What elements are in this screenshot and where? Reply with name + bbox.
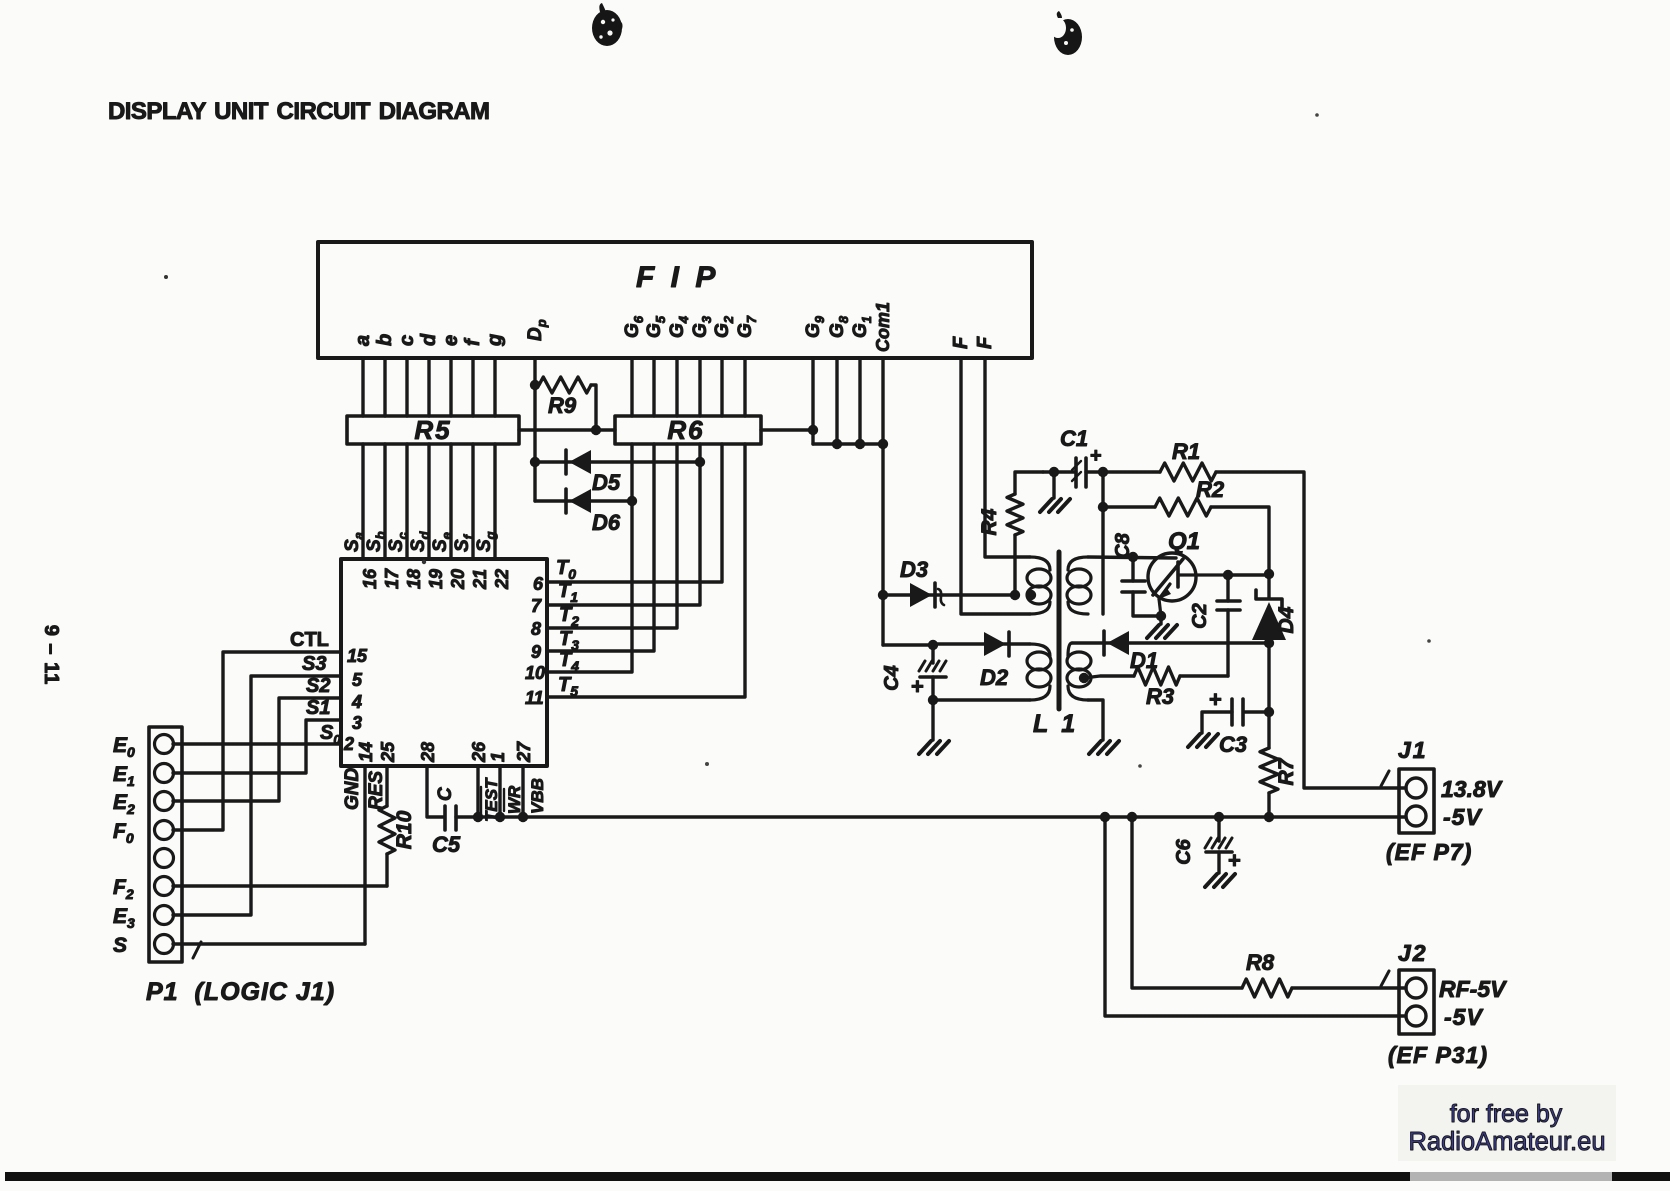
svg-text:C3: C3	[1219, 732, 1247, 757]
wire Q1 collector node	[1223, 570, 1233, 580]
L1 primary winding top-left	[1030, 557, 1050, 570]
svg-text:C6: C6	[1173, 838, 1195, 864]
svg-text:16: 16	[360, 568, 380, 589]
wire E3 to S3 pin5	[173, 676, 341, 915]
svg-text:6: 6	[533, 574, 544, 594]
svg-text:GND: GND	[342, 768, 363, 811]
svg-text:2: 2	[343, 734, 354, 754]
svg-text:1: 1	[488, 752, 508, 762]
svg-text:S1: S1	[306, 697, 330, 719]
svg-text:R2: R2	[1196, 477, 1225, 502]
svg-text:a: a	[352, 335, 374, 346]
svg-text:CTL: CTL	[290, 629, 329, 651]
svg-text:4: 4	[351, 692, 362, 712]
svg-text:22: 22	[492, 569, 512, 590]
FIP pin Com1 wire / net Com1	[881, 358, 884, 645]
capacitor C1	[1074, 458, 1078, 487]
svg-text:D3: D3	[900, 557, 928, 582]
scan blob artifact left	[592, 3, 623, 46]
svg-text:9: 9	[531, 642, 541, 662]
wire F2 to R10	[173, 884, 387, 887]
svg-text:(EF P7): (EF P7)	[1386, 839, 1472, 865]
svg-text:-5V: -5V	[1443, 804, 1482, 830]
connector P1	[149, 727, 182, 962]
resistor R9	[539, 377, 591, 393]
svg-text:R7: R7	[1275, 757, 1298, 785]
svg-text:R5: R5	[414, 415, 451, 445]
svg-text:RF-5V: RF-5V	[1439, 976, 1507, 1002]
svg-text:S3: S3	[302, 653, 326, 675]
P1 contact circle 8	[155, 935, 174, 954]
FIP pin F wire (1)	[961, 358, 1030, 614]
svg-text:F I P: F I P	[636, 261, 719, 294]
L1 winding tap (top-left)	[1010, 590, 1020, 600]
svg-text:20: 20	[448, 569, 468, 590]
wire IC pin1 down	[498, 766, 501, 817]
resistor R7	[1267, 712, 1270, 748]
svg-text:VBB: VBB	[528, 778, 547, 814]
wire bus to R8	[1127, 812, 1137, 822]
wire C1 left / ground stub	[1043, 470, 1076, 473]
svg-text:RadioAmateur.eu: RadioAmateur.eu	[1408, 1128, 1605, 1156]
wire E2 to S2 pin4	[173, 698, 341, 801]
diode D5	[535, 460, 700, 463]
wire bus to J2 pin2	[1100, 812, 1110, 822]
wire G3 to IC pin T1	[547, 444, 700, 605]
transformer L1 core	[1057, 552, 1062, 709]
ground at L1	[1089, 741, 1101, 754]
wire IC pin14 GND down	[363, 766, 366, 944]
ground at C6	[1205, 874, 1217, 887]
diode D1	[1072, 641, 1269, 644]
svg-text:c: c	[396, 335, 418, 346]
(noise)	[164, 275, 168, 279]
svg-text:S: S	[113, 934, 127, 957]
svg-text:d: d	[418, 333, 440, 346]
J1 contact 1	[1406, 778, 1426, 798]
FIP pin b wire	[383, 358, 386, 416]
svg-text:Com1: Com1	[873, 302, 893, 352]
svg-text:9 – 11: 9 – 11	[40, 625, 62, 686]
svg-text:D5: D5	[592, 470, 621, 495]
connector J2	[1399, 970, 1434, 1034]
FIP pin G8 wire	[835, 358, 838, 444]
capacitor C8	[1131, 557, 1134, 581]
Q1 emitter to ground	[1156, 611, 1166, 621]
wire Sd R5 to IC	[427, 444, 430, 559]
svg-text:27: 27	[514, 741, 534, 763]
wire Sg R5 to IC	[493, 444, 496, 559]
transistor Q1	[1148, 553, 1196, 601]
FIP pin Dp wire	[533, 358, 536, 501]
P1 contact circle 7	[155, 906, 174, 925]
svg-text:18: 18	[404, 569, 424, 589]
wire winding to R1/R2 junction	[1101, 472, 1104, 614]
svg-text:F: F	[974, 336, 996, 349]
wire Sc R5 to IC	[405, 444, 408, 559]
svg-text:R9: R9	[548, 393, 577, 418]
L1 winding bottom-left	[1030, 644, 1050, 656]
svg-text:DISPLAY UNIT CIRCUIT DIAGRAM: DISPLAY UNIT CIRCUIT DIAGRAM	[108, 98, 489, 125]
wire R5 to R6	[519, 428, 615, 431]
P1 contact circle 3	[155, 792, 174, 811]
svg-text:C1: C1	[1060, 426, 1088, 451]
svg-text:-5V: -5V	[1444, 1004, 1483, 1030]
svg-text:15: 15	[347, 646, 368, 666]
FIP pin G7 wire	[743, 358, 746, 416]
P1 contact circle 4	[155, 821, 174, 840]
capacitor C3	[1264, 707, 1274, 717]
J1 contact 2	[1406, 806, 1426, 826]
FIP pin g wire	[493, 358, 496, 416]
svg-text:+: +	[1209, 687, 1222, 712]
svg-text:RES: RES	[366, 771, 387, 810]
zener diode D4	[1267, 574, 1270, 598]
wire R6 to G9	[761, 428, 813, 431]
FIP pin G5 wire	[652, 358, 655, 416]
svg-text:C: C	[435, 787, 456, 801]
svg-text:21: 21	[470, 569, 490, 590]
svg-text:J2: J2	[1398, 940, 1428, 966]
svg-text:b: b	[374, 334, 396, 346]
resistor R1	[1098, 467, 1108, 477]
ground at Q1 emitter	[1147, 625, 1159, 638]
svg-text:R10: R10	[393, 810, 416, 849]
wire bottom-right winding to ground	[1088, 700, 1103, 740]
svg-text:P1 (LOGIC J1): P1 (LOGIC J1)	[146, 978, 335, 1006]
wire Sb R5 to IC	[383, 444, 386, 559]
L1 winding bottom-right	[1068, 643, 1072, 656]
svg-text:C8: C8	[1112, 532, 1134, 558]
svg-text:F: F	[950, 336, 972, 349]
wire C4 node to ground	[931, 700, 934, 740]
svg-text:3: 3	[352, 713, 362, 733]
capacitor C6	[1214, 812, 1224, 822]
FIP pin f wire	[471, 358, 474, 416]
bottom -5V bus wire	[456, 815, 1406, 818]
svg-text:C2: C2	[1189, 603, 1211, 629]
J2 contact 2	[1406, 1006, 1426, 1026]
svg-text:D4: D4	[1275, 606, 1298, 633]
resistor network R5	[347, 416, 519, 444]
resistor network R6	[615, 416, 761, 444]
FIP pin d wire	[427, 358, 430, 416]
resistor R8	[1242, 979, 1292, 997]
wire IC pin26 down	[476, 766, 479, 817]
J1 pin1 tick	[1381, 771, 1389, 786]
svg-text:7: 7	[531, 596, 542, 616]
svg-text:R1: R1	[1172, 439, 1200, 464]
capacitor C2	[1226, 575, 1229, 601]
wire Com1 to D2 node	[883, 643, 933, 646]
wire F0 to CTL pin15	[173, 652, 341, 830]
FIP pin G3 wire	[698, 358, 701, 416]
svg-text:19: 19	[426, 569, 446, 589]
resistor R4	[1013, 535, 1016, 595]
svg-text:R4: R4	[978, 508, 1001, 535]
svg-text:e: e	[440, 335, 462, 346]
IC driver U1	[341, 559, 547, 766]
J2 pin1 tick	[1381, 971, 1389, 986]
FIP pin G6 wire	[630, 358, 633, 416]
ground at C1	[1040, 499, 1052, 512]
capacitor C5	[443, 806, 447, 830]
svg-text:C5: C5	[432, 832, 461, 857]
capacitor C4	[931, 645, 934, 663]
diode D3	[883, 593, 1015, 596]
svg-text:+: +	[1090, 445, 1102, 467]
wire E0 to S0 pin2	[173, 742, 341, 745]
svg-text:28: 28	[418, 742, 438, 763]
node bus G9-G8-G1-Com1	[813, 442, 883, 445]
svg-text:(EF P31): (EF P31)	[1388, 1042, 1488, 1068]
FIP pin a wire	[361, 358, 364, 416]
wire G7 to IC pin T5	[547, 444, 745, 697]
svg-text:R6: R6	[667, 415, 704, 445]
wire winding to Q1 base / C8	[1088, 557, 1176, 558]
wire Sf R5 to IC	[471, 444, 474, 559]
wire Se R5 to IC	[449, 444, 452, 559]
svg-text:D2: D2	[980, 665, 1009, 690]
svg-text:+: +	[911, 674, 924, 699]
diode D6	[535, 499, 632, 502]
svg-text:8: 8	[531, 619, 541, 639]
P1 contact circle 6	[155, 877, 174, 896]
svg-text:5: 5	[352, 670, 363, 690]
svg-text:R3: R3	[1146, 684, 1174, 709]
svg-text:S2: S2	[306, 675, 330, 697]
P1 contact circle 1	[155, 735, 174, 754]
wire IC pin28 to C5	[427, 766, 443, 817]
svg-text:for free by: for free by	[1450, 1100, 1563, 1128]
svg-text:14: 14	[356, 742, 376, 762]
wire G2 to IC pin T0	[547, 444, 722, 582]
wire G6 to IC pin T4	[547, 444, 632, 672]
svg-text:25: 25	[378, 741, 398, 763]
diode D2	[933, 642, 1030, 645]
wire IC pin27 down	[521, 766, 524, 817]
P1 contact circle 5	[155, 849, 174, 868]
FIP pin G9 wire	[811, 358, 814, 444]
svg-text:11: 11	[525, 688, 544, 708]
svg-text:10: 10	[525, 663, 545, 683]
P1 contact circle 2	[155, 764, 174, 783]
connector J1	[1399, 769, 1434, 833]
wire G5 to IC pin T3	[547, 444, 654, 651]
wire Sa R5 to IC	[361, 444, 364, 559]
svg-text:R8: R8	[1246, 950, 1275, 975]
scan blob artifact right	[1050, 11, 1082, 55]
svg-text:26: 26	[469, 741, 489, 763]
resistor R3	[1079, 673, 1089, 683]
FIP pin G4 wire	[675, 358, 678, 416]
svg-text:D6: D6	[592, 510, 621, 535]
bottom black bar	[5, 1172, 1410, 1181]
resistor R10 on pin 25	[385, 766, 388, 806]
resistor R2	[1098, 502, 1108, 512]
svg-text:J1: J1	[1398, 737, 1428, 763]
FIP pin c wire	[405, 358, 408, 416]
J2 contact 1	[1406, 978, 1426, 998]
svg-text:13.8V: 13.8V	[1441, 776, 1503, 802]
wire E1 to S1 pin3	[173, 720, 341, 773]
L1 secondary winding top-right	[1068, 557, 1088, 570]
svg-text:17: 17	[382, 568, 402, 589]
FIP pin G1 wire	[858, 358, 861, 444]
FIP pin e wire	[449, 358, 452, 416]
svg-text:WR: WR	[505, 785, 524, 814]
ground at C4	[919, 741, 931, 754]
wire bottom-left winding to C4 node	[933, 698, 1030, 701]
watermark	[1398, 1085, 1616, 1161]
svg-text:Q1: Q1	[1168, 528, 1200, 555]
wire D4 anode down	[1267, 643, 1270, 712]
svg-text:C4: C4	[881, 665, 903, 691]
wire S to GND pin14	[173, 942, 365, 945]
FIP pin F wire (2)	[985, 358, 1030, 557]
ground at C3	[1188, 734, 1200, 747]
FIP pin G2 wire	[720, 358, 723, 416]
P1 pin1 tick	[193, 942, 201, 958]
FIP display box	[318, 242, 1032, 358]
wire G4 to IC pin T2	[547, 444, 677, 628]
svg-text:g: g	[484, 334, 506, 347]
svg-text:+: +	[1228, 848, 1241, 873]
svg-text:L 1: L 1	[1033, 710, 1078, 738]
